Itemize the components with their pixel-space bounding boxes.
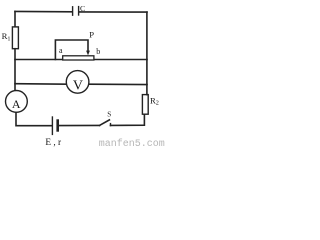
- svg-text:V: V: [73, 78, 83, 93]
- svg-text:manfen5.com: manfen5.com: [99, 138, 165, 150]
- rheostat track a-b: [63, 56, 94, 60]
- wire voltmeter line right: [89, 83, 147, 85]
- svg-text:P: P: [89, 30, 94, 40]
- svg-text:A: A: [12, 97, 21, 111]
- wire ab line right: [94, 59, 147, 61]
- switch S lever: [100, 120, 110, 126]
- svg-text:C: C: [80, 4, 85, 13]
- battery E plates: [52, 117, 57, 134]
- capacitor C plates: [73, 7, 79, 16]
- wire right vertical: [146, 12, 148, 95]
- slider arrow P: [86, 51, 90, 56]
- wire switch to bottom right corner: [111, 114, 145, 125]
- voltmeter V circle: [66, 71, 89, 94]
- resistor R1: [12, 27, 18, 49]
- svg-text:b: b: [96, 47, 100, 56]
- svg-text:a: a: [59, 46, 63, 55]
- wire ammeter to bottom: [16, 113, 52, 126]
- ammeter A circle: [6, 91, 28, 113]
- svg-text:R1: R1: [2, 31, 11, 42]
- wire battery to switch: [59, 124, 99, 126]
- wire left vertical upper: [14, 11, 16, 27]
- switch right contact tick: [110, 124, 112, 126]
- svg-text:S: S: [107, 111, 111, 119]
- resistor R2: [142, 95, 148, 115]
- wire top right segment: [79, 11, 147, 13]
- svg-text:E , r: E , r: [45, 138, 62, 148]
- wire top left segment: [15, 10, 72, 12]
- wire voltmeter line left: [15, 83, 67, 86]
- wire ab line left: [15, 59, 63, 61]
- wire left vertical lower: [14, 49, 16, 91]
- svg-text:R2: R2: [150, 95, 159, 106]
- slider bracket wire: [55, 40, 88, 60]
